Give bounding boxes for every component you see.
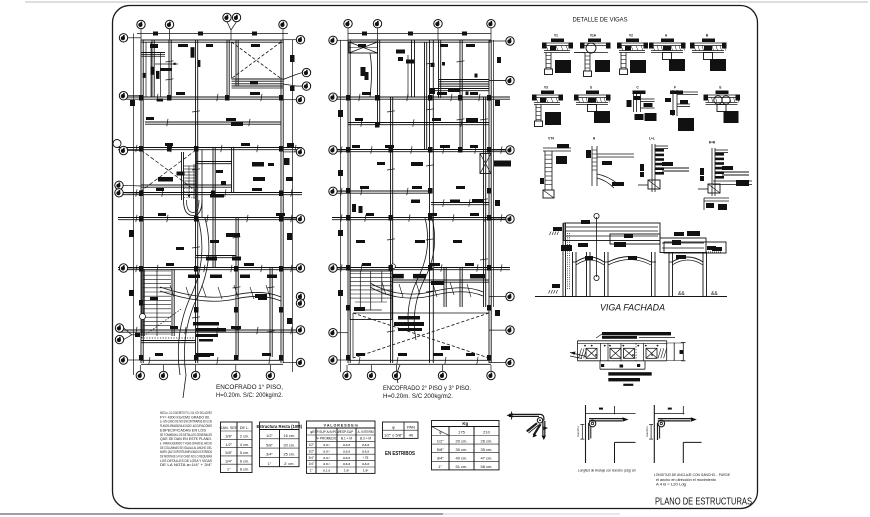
plan1 beam y340 bbox=[141, 340, 196, 342]
beam detail V2 bbox=[617, 34, 648, 75]
svg-text:*.75: *.75 bbox=[363, 456, 369, 460]
plan2 bottom wall bbox=[348, 359, 491, 361]
svg-text:a.a.a: a.a.a bbox=[343, 443, 350, 447]
plan2 left wall bbox=[347, 40, 349, 363]
plan2 beam y80 bbox=[439, 79, 489, 81]
plan1 column ticks bbox=[192, 111, 200, 112]
svg-text:1.a²: 1.a² bbox=[363, 469, 369, 473]
beam detail B bbox=[690, 34, 727, 72]
plan1 stair wall bbox=[151, 40, 153, 97]
plan2 bottom bubbles bbox=[343, 371, 351, 379]
plan1 left dimension line bbox=[133, 34, 135, 376]
plan2 party wall second line bbox=[424, 42, 426, 150]
svg-text:51 cm.: 51 cm. bbox=[455, 464, 467, 469]
svg-text:&&: && bbox=[678, 291, 685, 297]
column detail L+L bbox=[638, 137, 689, 193]
plan2 right wall bbox=[488, 40, 490, 363]
fachada top band left bbox=[564, 223, 660, 241]
svg-text:ENCOFRADO 1° PISO,: ENCOFRADO 1° PISO, bbox=[216, 383, 283, 391]
fachada left wall bbox=[562, 223, 564, 297]
plan1 dotted line bottom bbox=[141, 337, 196, 339]
column detail H bbox=[586, 137, 634, 189]
plan2 left dimension line bbox=[340, 40, 342, 372]
svg-text:E: E bbox=[719, 86, 721, 90]
svg-text:35 cm.: 35 cm. bbox=[480, 447, 492, 452]
plan2 column line 3 stub bbox=[438, 40, 440, 98]
column detail R+R bbox=[698, 141, 749, 197]
beam detail F bbox=[665, 86, 698, 132]
plan1 left pair bubbles G bbox=[115, 324, 123, 332]
svg-text:6 cm.: 6 cm. bbox=[240, 459, 249, 463]
svg-text:3/4": 3/4" bbox=[225, 459, 232, 463]
svg-text:DE LA NOTA a=1/4" + 3/4": DE LA NOTA a=1/4" + 3/4" bbox=[160, 463, 213, 467]
slab hatch patches bbox=[579, 348, 582, 358]
svg-text:40 cm.: 40 cm. bbox=[455, 456, 467, 461]
svg-text:1/2": 1/2" bbox=[225, 443, 232, 447]
plan1 bottom bubbles bbox=[136, 371, 144, 379]
svg-text:B.3 + M: B.3 + M bbox=[360, 437, 371, 441]
svg-text:A² PROMEDIO: A² PROMEDIO bbox=[316, 437, 338, 441]
svg-text:a.a.²: a.a.² bbox=[323, 443, 329, 447]
plan1 beam y185 bbox=[141, 184, 232, 186]
plan1 grid bubble 2 top bbox=[165, 20, 173, 28]
slab detail top leader line bbox=[639, 336, 675, 338]
table E: anclajes bbox=[432, 421, 500, 470]
svg-text:φ: φ bbox=[392, 424, 395, 429]
plan1 bottom wall bbox=[141, 359, 283, 361]
slab detail left arrows bbox=[570, 353, 586, 357]
drawing frame border bbox=[113, 6, 758, 509]
svg-text:a.a.²: a.a.² bbox=[323, 462, 329, 466]
plan1 top dimension line bbox=[137, 33, 288, 35]
svg-text:EN ESTRIBOS: EN ESTRIBOS bbox=[385, 451, 415, 457]
plan2 beam labels (black marks) bbox=[358, 44, 366, 47]
svg-text:&&: && bbox=[711, 291, 718, 297]
bent rebar detail bbox=[509, 413, 541, 415]
plan1 beam y255 bbox=[196, 255, 236, 257]
svg-text:a.a.a: a.a.a bbox=[362, 443, 369, 447]
fachada left column hatch bbox=[567, 233, 569, 290]
scan artifact top edge line bbox=[25, 1, 868, 3]
fachada vertical marker pole bbox=[596, 217, 598, 277]
plan1 column line 2 bbox=[168, 40, 170, 97]
plan1 beam y84 bbox=[232, 83, 284, 85]
svg-text:V3: V3 bbox=[544, 86, 548, 90]
svg-text:V1: V1 bbox=[554, 34, 558, 38]
plan2 beam y97 bbox=[332, 96, 510, 98]
svg-text:20 cm.: 20 cm. bbox=[455, 438, 467, 443]
svg-text:5/8": 5/8" bbox=[437, 447, 445, 452]
plan2 beam y218 bbox=[332, 217, 510, 219]
svg-text:F: F bbox=[674, 86, 676, 90]
plan1 column line low right bbox=[269, 268, 271, 357]
fachada right band bbox=[660, 238, 706, 253]
svg-text:a.1.a: a.1.a bbox=[323, 469, 330, 473]
slab bottom tray bbox=[599, 361, 601, 369]
svg-text:el ancho en dirección el movi: el ancho en dirección el movimiento bbox=[656, 478, 716, 482]
plan1 top wall bbox=[141, 39, 283, 41]
plan1 column line mid2 bbox=[231, 148, 233, 192]
plan2 right dim line bbox=[493, 40, 495, 307]
fachada black labels bbox=[581, 220, 590, 224]
plan1 beam y97 bbox=[124, 96, 283, 98]
plan2 column line c bbox=[390, 97, 392, 363]
plan2 beam y84 bbox=[439, 83, 489, 85]
small detail below R+R bbox=[704, 197, 729, 199]
svg-text:GAN. SEP.: GAN. SEP. bbox=[219, 426, 238, 430]
plan1 column blocks bbox=[139, 95, 144, 101]
svg-text:5/8": 5/8" bbox=[266, 443, 273, 447]
svg-text:a.a.a: a.a.a bbox=[343, 449, 350, 453]
svg-text:V A L O R E S D E m: V A L O R E S D E m bbox=[324, 423, 358, 427]
svg-text:DE L.: DE L. bbox=[240, 426, 250, 430]
svg-text:210: 210 bbox=[483, 430, 490, 435]
beam detail R+R extension lines bbox=[713, 180, 752, 182]
svg-text:H=0.20m. S/C: 200kg/m2.: H=0.20m. S/C: 200kg/m2. bbox=[216, 393, 283, 399]
plan1 column line 3 bbox=[226, 40, 228, 97]
plan1 beam tick marks bbox=[157, 94, 158, 101]
plan2 top dim ticks bbox=[362, 32, 367, 36]
svg-text:a.a.a: a.a.a bbox=[343, 462, 350, 466]
plan2 top wall bbox=[348, 39, 491, 41]
svg-text:2: cm.: 2: cm. bbox=[284, 462, 294, 466]
svg-text:5/8": 5/8" bbox=[225, 451, 232, 455]
plan1 left grid bubbles bbox=[119, 34, 127, 42]
svg-text:ESP.SUP A²S²P.INF: ESP.SUP A²S²P.INF bbox=[312, 430, 340, 434]
svg-text:V1A: V1A bbox=[590, 34, 597, 38]
plan2 X window right bbox=[480, 154, 491, 174]
plan1 beam labels (black marks) bbox=[150, 44, 158, 48]
plan1 right dimension line bbox=[292, 40, 294, 372]
plan2 stair treads bbox=[350, 271, 392, 320]
svg-text:30 cm.: 30 cm. bbox=[455, 447, 467, 452]
beam detail V3 bbox=[532, 86, 563, 127]
column detail VT4 bbox=[540, 137, 571, 199]
svg-text:a.a.²: a.a.² bbox=[323, 456, 329, 460]
svg-text:1/2": 1/2" bbox=[266, 434, 273, 438]
svg-text:Kg: Kg bbox=[462, 421, 468, 426]
slab bottom black bars bbox=[608, 372, 651, 375]
plan1 beam y79 bbox=[232, 78, 284, 80]
svg-text:1/2" o 5/8": 1/2" o 5/8" bbox=[384, 433, 403, 438]
plan1 beam y148 bbox=[118, 147, 302, 149]
svg-text:LONGITUD DE ANCLAJE CON GANCHO: LONGITUD DE ANCLAJE CON GANCHO... PUEDE bbox=[654, 473, 731, 477]
slab rebar dots bbox=[584, 345, 586, 347]
plan2 column ticks bbox=[387, 111, 395, 112]
plan2 curved beam bbox=[370, 283, 483, 294]
svg-text:2 cm.: 2 cm. bbox=[240, 435, 249, 439]
svg-text:VIGA FACHADA: VIGA FACHADA bbox=[600, 303, 665, 314]
fachada right band 2 bbox=[664, 242, 726, 253]
svg-text:a.a.a: a.a.a bbox=[362, 462, 369, 466]
svg-text:Longitud de Anclaje con Gancho: Longitud de Anclaje con Gancho (Ldg) cm bbox=[578, 469, 636, 473]
fachada arches bbox=[576, 257, 604, 262]
plan2 column line d bbox=[429, 40, 431, 363]
fachada ground line bbox=[535, 296, 727, 298]
fachada right dotted mark bbox=[706, 251, 722, 253]
table B: empalmes bbox=[256, 422, 302, 467]
svg-text:20 cm.: 20 cm. bbox=[284, 443, 295, 447]
svg-text:16 cm.: 16 cm. bbox=[284, 434, 295, 438]
scan artifact bottom edge line bbox=[0, 513, 443, 515]
svg-text:3/8": 3/8" bbox=[225, 435, 232, 439]
table A: recubrimientos bbox=[219, 422, 252, 473]
beam detail A bbox=[649, 34, 686, 72]
svg-text:a.a.²: a.a.² bbox=[323, 449, 329, 453]
svg-text:R+R: R+R bbox=[709, 141, 716, 145]
plan2 beam y123 bbox=[348, 122, 489, 124]
plan2 beam y268 bbox=[332, 267, 510, 269]
plan1 right grid bubbles bbox=[296, 36, 304, 44]
plan2 large X brace bbox=[353, 313, 489, 358]
plan1 beam y192 bbox=[118, 192, 302, 194]
plan2 column stubs low bbox=[443, 268, 445, 307]
plan1 interior wall mid bbox=[212, 148, 214, 268]
slab detail top black bars bbox=[602, 332, 671, 335]
beam detail C bbox=[627, 86, 657, 122]
slab X boxes bbox=[586, 348, 597, 358]
plan1 column line 3b bbox=[235, 40, 237, 86]
svg-text:4 cm.: 4 cm. bbox=[240, 443, 249, 447]
plan1 extra black marks bbox=[158, 177, 173, 182]
fachada mid band bbox=[610, 234, 660, 244]
plan2 beam y150 bbox=[332, 149, 510, 151]
plan2 duct wall verticals bbox=[411, 40, 413, 97]
svg-text:8 cm.: 8 cm. bbox=[240, 468, 249, 472]
svg-text:40: 40 bbox=[409, 433, 414, 438]
plan1 right pair bubbles bbox=[302, 68, 310, 76]
svg-text:PAN: PAN bbox=[407, 424, 415, 429]
plan2 left grid bubbles bbox=[329, 36, 337, 44]
svg-text:175: 175 bbox=[458, 430, 465, 435]
slab detail band bbox=[578, 340, 667, 342]
plan1 stair top-left treads bbox=[142, 52, 166, 54]
svg-text:DETALLE DE VIGAS: DETALLE DE VIGAS bbox=[573, 17, 628, 24]
slab detail right end bbox=[673, 343, 675, 361]
plan2 column blocks bbox=[346, 95, 351, 101]
svg-text:1": 1" bbox=[438, 464, 442, 469]
svg-text:B.1 + M: B.1 + M bbox=[341, 437, 352, 441]
svg-text:3/4": 3/4" bbox=[266, 453, 273, 457]
svg-text:1/2": 1/2" bbox=[437, 438, 445, 443]
plan1 section cut curve bbox=[183, 218, 209, 398]
svg-text:3/4": 3/4" bbox=[308, 456, 314, 460]
plan2 beam y280 bbox=[392, 279, 489, 281]
plan2 black mark right bbox=[494, 161, 511, 167]
plan1 black text stack bbox=[193, 322, 219, 326]
plan1 left hollow circle bbox=[113, 140, 121, 148]
plan1 beam y218 bbox=[118, 217, 302, 219]
plan1 X brace left middle bbox=[141, 150, 196, 191]
plan1 curved beam bbox=[160, 287, 281, 297]
corner hook detail 2 bbox=[645, 405, 702, 463]
plan1 X brace top right bbox=[232, 42, 282, 79]
svg-text:L+L: L+L bbox=[649, 137, 655, 141]
beam detail E bbox=[704, 86, 741, 124]
svg-text:V2: V2 bbox=[629, 34, 633, 38]
svg-text:a.a.a: a.a.a bbox=[343, 456, 350, 460]
svg-text:1/2": 1/2" bbox=[308, 443, 314, 447]
plan1 beam y330 bbox=[118, 329, 302, 331]
svg-text:A 4 B = L20 Ldg: A 4 B = L20 Ldg bbox=[656, 483, 686, 487]
table C: valores de m bbox=[307, 421, 376, 473]
svg-text:Gancho: Gancho bbox=[576, 426, 580, 437]
svg-text:5 cm.: 5 cm. bbox=[240, 451, 249, 455]
plan2 beam y191 bbox=[332, 190, 431, 192]
svg-text:Gancho: Gancho bbox=[645, 426, 649, 437]
svg-text:25 cm.: 25 cm. bbox=[284, 453, 295, 457]
svg-text:H=0.20m. S/C 200kg/m2.: H=0.20m. S/C 200kg/m2. bbox=[383, 394, 453, 400]
plan1 beam y122 bbox=[145, 121, 281, 123]
svg-text:A. INTERM: A. INTERM bbox=[357, 430, 373, 434]
svg-text:PLANO DE ESTRUCTURAS: PLANO DE ESTRUCTURAS bbox=[655, 497, 752, 508]
svg-text:VT4: VT4 bbox=[548, 137, 554, 141]
plan2 top grid bubbles bbox=[344, 20, 352, 28]
table E diagonal bbox=[432, 427, 450, 436]
fachada left side marks bbox=[552, 284, 560, 288]
plan2 right grid bubbles bbox=[506, 37, 514, 45]
svg-text:3/4": 3/4" bbox=[437, 456, 445, 461]
plan2 column line b bbox=[377, 40, 379, 125]
svg-text:ESP.SUP: ESP.SUP bbox=[340, 430, 353, 434]
svg-text:1.a²: 1.a² bbox=[344, 469, 350, 473]
plan2 beam y89 bbox=[434, 88, 489, 90]
slab joist verticals bbox=[600, 343, 602, 361]
plan1 grid bubble 3 pair top bbox=[223, 13, 231, 21]
plan2 top dimension line bbox=[348, 33, 491, 35]
svg-text:58 cm.: 58 cm. bbox=[480, 464, 492, 469]
plan1 right wall bbox=[280, 40, 282, 363]
plan2 stair circles on beam bbox=[391, 264, 396, 269]
fachada columns bbox=[572, 252, 574, 297]
plan2 black text stack bbox=[398, 316, 420, 320]
plan2 extra black marks bbox=[393, 274, 404, 279]
svg-text:1/2": 1/2" bbox=[308, 449, 314, 453]
table D: estribos diameter bbox=[383, 422, 419, 438]
plan1 interior wall low bbox=[235, 218, 237, 357]
svg-text:a.a.a: a.a.a bbox=[362, 449, 369, 453]
svg-text:ENCOFRADO 2° PISO y 3° PISO.: ENCOFRADO 2° PISO y 3° PISO. bbox=[383, 385, 471, 392]
plan1 top dim ticks bbox=[153, 32, 158, 36]
plan2 beam y203 bbox=[431, 202, 489, 204]
plan2 column line e bbox=[459, 40, 461, 150]
plan1 grid bubble 1 top bbox=[137, 20, 145, 28]
beam detail V1 bbox=[542, 34, 573, 75]
beam detail S bbox=[574, 86, 611, 124]
plan1 spiral stair bbox=[181, 152, 183, 200]
plan2 beam tick marks bbox=[359, 94, 360, 101]
plan1 grid bubble 4 top bbox=[279, 20, 287, 28]
plan1 column line 2b bbox=[195, 40, 197, 363]
plan1 left wall bbox=[140, 40, 142, 363]
plan1 beam y268 bbox=[118, 267, 302, 269]
plan2 section cut below wall bbox=[397, 365, 400, 383]
svg-text:1/4": 1/4" bbox=[308, 462, 314, 466]
svg-text:47 cm.: 47 cm. bbox=[480, 456, 492, 461]
svg-text:1": 1" bbox=[310, 469, 313, 473]
plan2 column line f bbox=[483, 97, 485, 307]
plan1 beam y162 bbox=[196, 161, 232, 163]
svg-text:S: S bbox=[590, 86, 592, 90]
plan1 stair bottom-left bbox=[141, 269, 143, 336]
beam detail V1A bbox=[574, 34, 611, 77]
plan2 X box top left bbox=[349, 42, 378, 53]
corner hook detail 1 bbox=[576, 405, 636, 463]
plan2 section cut curve bbox=[414, 218, 434, 340]
svg-text:26 cm.: 26 cm. bbox=[480, 438, 492, 443]
svg-text:Estructura Recta (10M): Estructura Recta (10M) bbox=[256, 424, 302, 429]
plan1 left pair bubbles D bbox=[115, 181, 123, 189]
